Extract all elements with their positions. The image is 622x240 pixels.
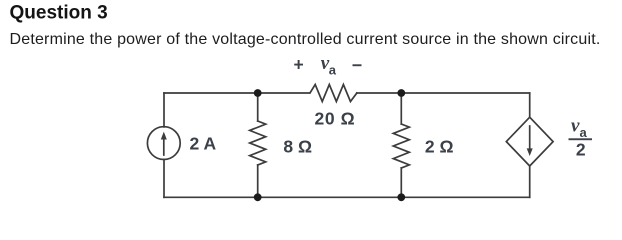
current source I1 arrow [163, 137, 165, 155]
svg-text:20 Ω: 20 Ω [315, 108, 356, 128]
svg-text:a: a [580, 125, 588, 140]
svg-text:Determine the power of the vol: Determine the power of the voltage-contr… [10, 31, 601, 48]
svg-text:+: + [294, 54, 304, 74]
wire 8-ohm branch top stub [257, 93, 259, 121]
svg-text:2: 2 [576, 140, 586, 160]
node dot bottom of 8-ohm branch [254, 193, 262, 201]
svg-text:2 A: 2 A [190, 134, 217, 154]
wire top-left segment [164, 92, 309, 94]
svg-text:2 Ω: 2 Ω [425, 136, 454, 156]
fraction bar [569, 138, 593, 140]
resistor R=20 ohm (top, horizontal) [310, 85, 357, 102]
dependent source arrow (down) [529, 126, 531, 150]
wire 2-ohm branch top stub [400, 93, 402, 124]
wire right lower [529, 166, 531, 197]
node dot top of 8-ohm branch [254, 89, 262, 97]
polarity minus sign [353, 64, 362, 66]
dependent source (diamond) [506, 117, 553, 166]
svg-text:Question 3: Question 3 [10, 2, 108, 23]
resistor R=2 ohm (vertical) [393, 124, 409, 168]
resistor R=8 ohm (vertical) [250, 121, 266, 165]
wire 2-ohm branch bottom stub [400, 168, 402, 197]
current source I1 2A (circle) [147, 127, 180, 160]
wire left upper [163, 93, 165, 127]
wire bottom [164, 196, 530, 198]
wire left lower [163, 159, 165, 197]
wire top-right segment [357, 92, 530, 94]
wire 8-ohm branch bottom stub [257, 165, 259, 197]
svg-text:8 Ω: 8 Ω [283, 136, 312, 156]
wire right upper [529, 93, 531, 117]
node dot top of 2-ohm branch [397, 89, 405, 97]
svg-text:a: a [329, 63, 337, 78]
node dot bottom of 2-ohm branch [397, 193, 405, 201]
